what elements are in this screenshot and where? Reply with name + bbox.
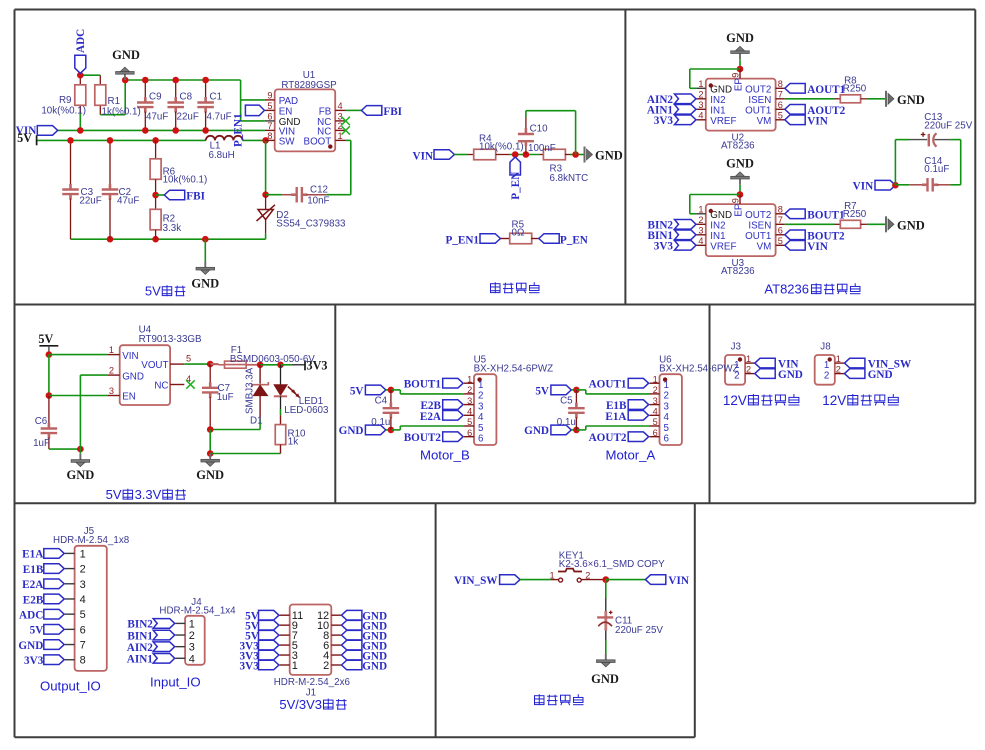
svg-text:220uF 25V: 220uF 25V xyxy=(615,625,663,636)
svg-text:HDR-M-2.54_1x8: HDR-M-2.54_1x8 xyxy=(53,535,130,546)
svg-text:OUT1: OUT1 xyxy=(745,105,771,116)
svg-text:Motor_A: Motor_A xyxy=(605,448,655,463)
svg-text:GND: GND xyxy=(112,48,140,62)
svg-text:5V: 5V xyxy=(17,131,32,145)
svg-text:D1: D1 xyxy=(250,416,263,427)
svg-text:0.1uF: 0.1uF xyxy=(924,164,949,175)
svg-text:5: 5 xyxy=(186,354,191,364)
svg-text:2: 2 xyxy=(698,215,703,225)
svg-text:2: 2 xyxy=(698,90,703,100)
svg-text:GND: GND xyxy=(191,277,219,291)
svg-text:22uF: 22uF xyxy=(79,196,101,207)
svg-text:9: 9 xyxy=(267,91,272,101)
svg-text:6: 6 xyxy=(653,428,658,438)
svg-text:BIN2: BIN2 xyxy=(127,619,153,631)
svg-text:10k(%0.1): 10k(%0.1) xyxy=(41,106,86,117)
svg-text:C4: C4 xyxy=(375,396,388,407)
svg-text:3: 3 xyxy=(109,386,114,396)
svg-text:1: 1 xyxy=(664,380,669,391)
svg-text:8: 8 xyxy=(267,131,272,141)
svg-text:ISEN: ISEN xyxy=(748,95,771,106)
svg-text:4: 4 xyxy=(664,412,670,423)
svg-text:IN2: IN2 xyxy=(710,95,725,106)
svg-text:VIN: VIN xyxy=(412,150,433,162)
svg-text:3: 3 xyxy=(698,226,703,236)
svg-text:1uF: 1uF xyxy=(33,438,50,449)
svg-text:5V/3V3: 5V/3V3 xyxy=(279,697,322,712)
svg-text:2: 2 xyxy=(746,365,751,375)
svg-text:SMBJ3.3A: SMBJ3.3A xyxy=(245,367,256,414)
svg-text:0.1u: 0.1u xyxy=(371,417,390,428)
svg-text:VREF: VREF xyxy=(710,116,736,127)
svg-text:GND: GND xyxy=(122,371,144,382)
svg-text:3: 3 xyxy=(80,579,86,591)
svg-text:C1: C1 xyxy=(210,92,223,103)
svg-text:1: 1 xyxy=(80,548,86,560)
svg-text:VIN: VIN xyxy=(122,351,138,362)
svg-text:2: 2 xyxy=(467,385,472,395)
svg-text:C8: C8 xyxy=(180,92,193,103)
svg-text:GND: GND xyxy=(591,672,619,686)
svg-text:VIN: VIN xyxy=(668,575,689,587)
svg-text:4: 4 xyxy=(80,594,86,606)
svg-text:9: 9 xyxy=(731,198,741,203)
svg-text:BIN1: BIN1 xyxy=(127,630,153,642)
svg-text:10k(%0.1): 10k(%0.1) xyxy=(163,175,208,186)
svg-text:1k(%0.1): 1k(%0.1) xyxy=(102,107,141,118)
svg-text:1: 1 xyxy=(824,360,829,371)
svg-text:6.8uH: 6.8uH xyxy=(209,150,235,161)
svg-text:8: 8 xyxy=(778,205,783,215)
svg-text:5V: 5V xyxy=(350,386,364,398)
svg-text:AOUT1: AOUT1 xyxy=(589,379,627,391)
svg-text:HDR-M-2.54_2x6: HDR-M-2.54_2x6 xyxy=(274,677,351,688)
svg-text:BX-XH2.54-6PWZ: BX-XH2.54-6PWZ xyxy=(659,363,739,374)
svg-text:3: 3 xyxy=(478,401,484,412)
svg-text:2: 2 xyxy=(653,385,658,395)
svg-text:10k(%0.1): 10k(%0.1) xyxy=(479,141,524,152)
svg-text:1: 1 xyxy=(550,571,555,581)
svg-text:4: 4 xyxy=(653,407,658,417)
svg-text:VOUT: VOUT xyxy=(141,360,168,371)
svg-text:12V: 12V xyxy=(822,393,846,408)
svg-text:J3: J3 xyxy=(731,342,742,353)
svg-text:E1B: E1B xyxy=(23,564,44,576)
svg-text:1k: 1k xyxy=(288,437,298,448)
svg-text:2: 2 xyxy=(189,630,195,642)
svg-text:VM: VM xyxy=(757,241,772,252)
svg-text:AIN1: AIN1 xyxy=(127,654,154,666)
svg-text:3: 3 xyxy=(467,396,472,406)
svg-text:3V3: 3V3 xyxy=(240,660,260,672)
svg-text:C5: C5 xyxy=(560,396,573,407)
svg-text:GND: GND xyxy=(726,156,754,170)
svg-text:0.1u: 0.1u xyxy=(557,417,576,428)
svg-text:3.3V: 3.3V xyxy=(135,487,162,502)
svg-text:2: 2 xyxy=(824,370,829,381)
svg-text:AT8236: AT8236 xyxy=(764,282,809,297)
svg-text:BX-XH2.54-6PWZ: BX-XH2.54-6PWZ xyxy=(474,363,554,374)
svg-text:5V: 5V xyxy=(30,625,44,637)
svg-text:VIN: VIN xyxy=(807,115,828,127)
svg-text:5V: 5V xyxy=(38,332,53,346)
svg-text:R250: R250 xyxy=(843,209,867,220)
svg-text:3V3: 3V3 xyxy=(24,655,44,667)
svg-text:EN: EN xyxy=(122,392,136,403)
svg-text:C10: C10 xyxy=(530,124,549,135)
svg-text:VIN_SW: VIN_SW xyxy=(454,575,498,587)
svg-text:P_EN: P_EN xyxy=(510,172,522,200)
svg-text:10nF: 10nF xyxy=(307,196,329,207)
svg-text:2: 2 xyxy=(836,365,841,375)
svg-text:ISEN: ISEN xyxy=(748,220,771,231)
svg-text:6: 6 xyxy=(467,428,472,438)
svg-text:3: 3 xyxy=(189,642,195,654)
svg-text:LED-0603: LED-0603 xyxy=(284,405,329,416)
svg-text:BOOT: BOOT xyxy=(304,136,332,147)
svg-text:P_EN1: P_EN1 xyxy=(233,113,245,147)
svg-text:GND: GND xyxy=(18,640,43,652)
svg-text:3.3k: 3.3k xyxy=(163,223,182,234)
svg-text:PAD: PAD xyxy=(279,96,298,107)
svg-text:E1A: E1A xyxy=(22,549,43,561)
svg-text:GND: GND xyxy=(778,369,803,381)
svg-text:GND: GND xyxy=(196,468,224,482)
svg-text:EP: EP xyxy=(734,203,745,217)
svg-text:OUT2: OUT2 xyxy=(745,210,771,221)
svg-text:AIN2: AIN2 xyxy=(127,642,154,654)
svg-text:OUT1: OUT1 xyxy=(745,231,771,242)
svg-text:SW: SW xyxy=(279,136,296,147)
svg-text:GND: GND xyxy=(362,660,387,672)
svg-text:SS54_C379833: SS54_C379833 xyxy=(276,219,346,230)
svg-text:BOUT2: BOUT2 xyxy=(404,432,442,444)
svg-text:AOUT2: AOUT2 xyxy=(589,432,627,444)
svg-text:GND: GND xyxy=(897,93,925,107)
svg-text:7: 7 xyxy=(267,121,272,131)
svg-text:E2A: E2A xyxy=(420,411,441,423)
svg-text:1: 1 xyxy=(698,205,703,215)
svg-text:2: 2 xyxy=(80,564,86,576)
svg-text:OUT2: OUT2 xyxy=(745,84,771,95)
svg-text:12V: 12V xyxy=(723,393,747,408)
svg-text:AT8236: AT8236 xyxy=(721,140,755,151)
svg-text:1: 1 xyxy=(478,380,483,391)
svg-text:ADC: ADC xyxy=(19,609,43,621)
svg-text:GND: GND xyxy=(868,369,893,381)
svg-text:6: 6 xyxy=(478,434,484,445)
svg-text:C6: C6 xyxy=(35,416,48,427)
svg-text:IN1: IN1 xyxy=(710,105,725,116)
svg-text:GND: GND xyxy=(710,84,732,95)
svg-text:BSMD0603-050-6V: BSMD0603-050-6V xyxy=(230,354,315,365)
svg-text:GND: GND xyxy=(710,210,732,221)
svg-text:7: 7 xyxy=(80,640,86,652)
svg-text:P_EN: P_EN xyxy=(560,234,588,246)
svg-text:3: 3 xyxy=(698,100,703,110)
svg-text:GND: GND xyxy=(897,218,925,232)
svg-text:C12: C12 xyxy=(310,185,328,196)
svg-text:R250: R250 xyxy=(843,84,867,95)
svg-text:1: 1 xyxy=(338,131,343,141)
svg-text:6: 6 xyxy=(664,434,670,445)
svg-text:Motor_B: Motor_B xyxy=(420,448,470,463)
svg-text:E2A: E2A xyxy=(22,579,43,591)
svg-text:3V3: 3V3 xyxy=(654,115,674,127)
svg-text:1uF: 1uF xyxy=(217,392,234,403)
svg-text:NC: NC xyxy=(154,381,168,392)
svg-text:220uF 25V: 220uF 25V xyxy=(924,121,972,132)
svg-text:1: 1 xyxy=(653,374,658,384)
svg-text:VM: VM xyxy=(757,116,772,127)
svg-text:6: 6 xyxy=(778,100,783,110)
svg-text:2: 2 xyxy=(109,366,114,376)
svg-text:1: 1 xyxy=(698,79,703,89)
svg-text:AT8236: AT8236 xyxy=(721,266,755,277)
svg-text:8: 8 xyxy=(80,655,86,667)
svg-text:4: 4 xyxy=(698,111,703,121)
svg-text:5: 5 xyxy=(664,423,670,434)
svg-text:GND: GND xyxy=(524,425,549,437)
svg-text:0Ω: 0Ω xyxy=(512,227,525,238)
svg-text:1: 1 xyxy=(746,354,751,364)
svg-text:5: 5 xyxy=(653,417,658,427)
svg-text:RT8289GSP: RT8289GSP xyxy=(281,80,337,91)
svg-text:9: 9 xyxy=(731,73,741,78)
svg-text:1: 1 xyxy=(292,660,298,672)
svg-text:2: 2 xyxy=(478,391,483,402)
svg-text:Input_IO: Input_IO xyxy=(150,674,201,689)
svg-text:Output_IO: Output_IO xyxy=(40,679,101,694)
svg-text:6: 6 xyxy=(80,624,86,636)
svg-text:GND: GND xyxy=(339,425,364,437)
svg-text:47uF: 47uF xyxy=(117,196,139,207)
svg-text:HDR-M-2.54_1x4: HDR-M-2.54_1x4 xyxy=(159,605,236,616)
svg-text:5: 5 xyxy=(467,417,472,427)
svg-text:6: 6 xyxy=(267,112,272,122)
svg-text:7: 7 xyxy=(778,215,783,225)
svg-text:K2-3.6×6.1_SMD COPY: K2-3.6×6.1_SMD COPY xyxy=(559,559,665,570)
svg-text:EN: EN xyxy=(279,106,293,117)
svg-text:4.7uF: 4.7uF xyxy=(207,112,232,123)
svg-text:FB: FB xyxy=(319,106,332,117)
svg-text:4: 4 xyxy=(698,236,703,246)
svg-text:4: 4 xyxy=(478,412,484,423)
svg-text:2: 2 xyxy=(664,391,669,402)
svg-text:R1: R1 xyxy=(108,96,121,107)
svg-text:5: 5 xyxy=(80,609,86,621)
svg-text:1: 1 xyxy=(109,345,114,355)
svg-text:ADC: ADC xyxy=(75,29,87,53)
svg-text:3V3: 3V3 xyxy=(654,241,674,253)
svg-text:6: 6 xyxy=(778,226,783,236)
svg-text:22uF: 22uF xyxy=(177,112,199,123)
svg-text:VREF: VREF xyxy=(710,241,736,252)
svg-text:J8: J8 xyxy=(820,342,831,353)
svg-text:FBI: FBI xyxy=(383,106,402,118)
svg-text:5: 5 xyxy=(478,423,484,434)
svg-text:E1A: E1A xyxy=(605,411,626,423)
svg-text:BOUT1: BOUT1 xyxy=(404,379,442,391)
svg-text:C9: C9 xyxy=(149,92,162,103)
svg-text:P_EN1: P_EN1 xyxy=(445,234,479,246)
svg-text:5V: 5V xyxy=(535,386,549,398)
svg-text:4: 4 xyxy=(467,407,472,417)
svg-text:VIN: VIN xyxy=(807,241,828,253)
svg-text:IN2: IN2 xyxy=(710,220,725,231)
svg-text:BOUT1: BOUT1 xyxy=(807,209,845,221)
svg-text:8: 8 xyxy=(778,79,783,89)
svg-text:3: 3 xyxy=(664,401,670,412)
svg-text:7: 7 xyxy=(778,90,783,100)
svg-text:4: 4 xyxy=(189,653,195,665)
svg-text:5: 5 xyxy=(778,111,783,121)
svg-text:5V: 5V xyxy=(106,487,122,502)
svg-text:4: 4 xyxy=(338,101,343,111)
svg-text:FBI: FBI xyxy=(186,191,205,203)
svg-text:1: 1 xyxy=(189,618,195,630)
svg-text:47uF: 47uF xyxy=(146,112,168,123)
svg-text:3: 3 xyxy=(653,396,658,406)
svg-text:GND: GND xyxy=(726,31,754,45)
svg-text:5: 5 xyxy=(778,236,783,246)
svg-text:EP: EP xyxy=(734,78,745,92)
svg-text:5: 5 xyxy=(267,101,272,111)
svg-text:100nF: 100nF xyxy=(528,143,556,154)
svg-text:2: 2 xyxy=(323,660,329,672)
svg-text:IN1: IN1 xyxy=(710,231,725,242)
svg-text:6.8kNTC: 6.8kNTC xyxy=(550,173,589,184)
svg-text:1: 1 xyxy=(467,374,472,384)
svg-text:VIN: VIN xyxy=(853,181,874,193)
svg-text:RT9013-33GB: RT9013-33GB xyxy=(139,334,202,345)
svg-text:GND: GND xyxy=(595,149,623,163)
svg-text:R9: R9 xyxy=(59,95,72,106)
svg-text:1: 1 xyxy=(836,354,841,364)
svg-text:5V: 5V xyxy=(145,284,161,299)
svg-text:E2B: E2B xyxy=(23,594,44,606)
svg-text:GND: GND xyxy=(67,468,95,482)
